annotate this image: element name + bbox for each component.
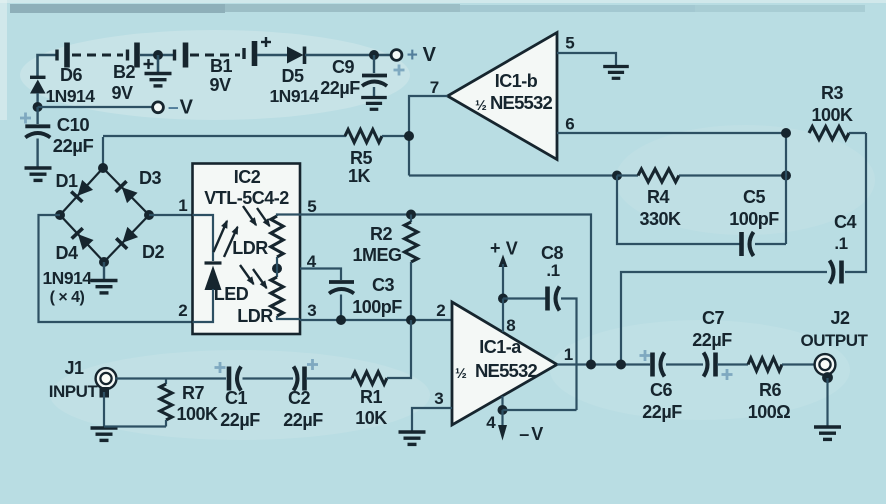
label pin3 a xyxy=(434,389,443,408)
svg-text:10K: 10K xyxy=(355,408,387,428)
label R1 value 10K xyxy=(355,408,387,428)
wire B2 to ground node xyxy=(140,54,173,57)
svg-text:22µF: 22µF xyxy=(692,330,732,350)
wire C7 to R6 xyxy=(717,363,748,365)
label pin2 xyxy=(178,301,187,320)
svg-text:NE5532: NE5532 xyxy=(490,92,553,113)
terminal -V circle xyxy=(153,102,164,113)
label -V ic1a xyxy=(519,424,543,444)
plus mark C1 xyxy=(215,362,226,373)
wire IC1b pin5 to ground xyxy=(557,53,616,65)
svg-text:VTL-5C4-2: VTL-5C4-2 xyxy=(204,188,289,208)
node pin6 R3 junction xyxy=(781,128,791,138)
arrow LED emission 2 xyxy=(224,224,241,257)
wire R5 line left xyxy=(103,135,346,137)
svg-text:22µF: 22µF xyxy=(642,402,682,422)
resistor R6 xyxy=(748,358,782,371)
svg-text:100Ω: 100Ω xyxy=(748,402,791,422)
svg-text:V: V xyxy=(531,424,543,444)
ground IC1b pin5 xyxy=(603,67,629,79)
node pin7 R5 junction xyxy=(404,131,414,141)
svg-text:22µF: 22µF xyxy=(283,410,323,430)
label -V xyxy=(168,97,194,119)
wire bridge bottom stub xyxy=(103,262,105,279)
label J2 xyxy=(830,308,850,328)
label R3 xyxy=(821,83,843,103)
label C8 value .1 xyxy=(546,261,559,280)
LDR bottom resistor xyxy=(271,277,283,316)
svg-text:B2: B2 xyxy=(113,62,135,82)
label pin8 xyxy=(506,316,515,335)
label C5 value 100pF xyxy=(729,209,779,229)
node R4 left xyxy=(612,171,622,181)
ground bridge xyxy=(91,281,118,293)
label C2 value xyxy=(283,410,323,430)
resistor R2 xyxy=(405,215,418,321)
svg-text:8: 8 xyxy=(506,316,515,335)
label J1 xyxy=(64,358,84,378)
arrow LED emission 1 xyxy=(214,218,231,252)
ground IC1a pin3 xyxy=(399,432,426,444)
wire C2 to R1 xyxy=(306,377,352,379)
plus mark C6 xyxy=(640,350,651,361)
svg-text:1K: 1K xyxy=(348,166,371,186)
ground C10 xyxy=(25,168,52,180)
label R5 value 1K xyxy=(348,166,371,186)
diode D6 xyxy=(30,77,46,107)
label C7 xyxy=(702,308,724,328)
svg-text:V: V xyxy=(506,239,518,259)
node R2 top xyxy=(406,210,416,220)
label pin1 xyxy=(178,196,187,215)
plus mark C7 xyxy=(722,369,733,380)
arrow onto LDR bottom 2 xyxy=(253,269,270,291)
svg-text:½: ½ xyxy=(455,365,467,381)
wire +V arrow xyxy=(499,255,508,299)
diode D2 xyxy=(116,227,138,249)
arrow onto LDR bottom 1 xyxy=(240,265,257,287)
label LDR bottom xyxy=(237,306,273,326)
node J2 sleeve xyxy=(822,372,833,383)
label pin5 xyxy=(307,197,316,216)
svg-text:D6: D6 xyxy=(60,65,82,85)
label NE5532 b xyxy=(490,92,553,113)
capacitor C7 xyxy=(704,353,716,377)
svg-text:2: 2 xyxy=(436,301,445,320)
wire IC2 pin3 internal xyxy=(277,316,300,319)
label C3 xyxy=(372,275,394,295)
label pin6 b xyxy=(565,115,574,134)
label C10 xyxy=(57,114,90,135)
label R1 xyxy=(360,387,382,407)
svg-text:100K: 100K xyxy=(176,404,218,424)
label bridge x4 xyxy=(50,289,85,306)
label LDR top xyxy=(232,238,268,258)
capacitor C9 xyxy=(362,55,387,96)
capacitor C6 xyxy=(653,353,665,377)
label C1 xyxy=(225,388,247,408)
label C4 xyxy=(834,212,856,232)
resistor R4 xyxy=(617,169,786,182)
op-amp IC1-a xyxy=(452,302,557,425)
label INPUT xyxy=(49,382,99,401)
wire J2 to ground xyxy=(826,378,828,426)
label R6 value 100ohm xyxy=(748,402,791,422)
wire pin7 node to R4 xyxy=(409,174,617,176)
resistor R3 xyxy=(809,127,866,140)
svg-text:22µF: 22µF xyxy=(220,410,260,430)
LED IC2 xyxy=(205,263,222,290)
plus mark C2 xyxy=(307,359,318,370)
wire LDR junction xyxy=(276,257,278,277)
svg-text:R1: R1 xyxy=(360,387,382,407)
svg-text:J1: J1 xyxy=(64,358,84,378)
label B1 xyxy=(210,56,232,76)
svg-text:–: – xyxy=(519,424,529,444)
plus mark B1 xyxy=(261,37,271,47)
node pin8 junction xyxy=(498,294,508,304)
ground C9 xyxy=(361,98,387,110)
svg-text:D3: D3 xyxy=(139,168,161,188)
node -V junction xyxy=(33,102,43,112)
wire bridge top stub xyxy=(102,137,104,168)
node bridge right xyxy=(144,210,154,220)
terminal +V circle xyxy=(391,50,402,61)
svg-text:C1: C1 xyxy=(225,388,247,408)
node C9 top xyxy=(369,50,379,60)
label C3 value 100pF xyxy=(352,297,402,317)
svg-text:1N914: 1N914 xyxy=(42,268,92,288)
wire IC1b pin7 to R5/R4 node xyxy=(409,96,448,176)
label B2 xyxy=(113,62,135,82)
label IC1-b xyxy=(495,71,538,91)
label C9 xyxy=(332,57,354,77)
capacitor C10 xyxy=(25,107,50,167)
wire IC2 pin1 internal xyxy=(193,215,214,261)
svg-text:IC1-b: IC1-b xyxy=(495,71,538,91)
diode D5 xyxy=(287,47,305,65)
svg-text:9V: 9V xyxy=(209,75,231,95)
wire bridge left to bottom rail xyxy=(39,215,193,322)
label D2 xyxy=(142,242,164,262)
svg-text:LDR: LDR xyxy=(232,238,268,258)
svg-text:1N914: 1N914 xyxy=(45,86,95,106)
arrow onto LDR top 2 xyxy=(257,208,273,229)
label D4 xyxy=(55,243,77,263)
label C1 value xyxy=(220,410,260,430)
svg-text:D5: D5 xyxy=(281,66,303,86)
node R2 bottom xyxy=(406,315,416,325)
svg-text:5: 5 xyxy=(565,34,574,53)
LDR top resistor xyxy=(271,216,283,257)
wire IC1a output xyxy=(557,363,650,365)
label R4 value 330K xyxy=(639,209,681,229)
svg-text:4: 4 xyxy=(486,413,496,432)
plus mark C9 xyxy=(394,65,405,76)
label +V ic1a xyxy=(490,238,518,259)
svg-text:R2: R2 xyxy=(370,224,392,244)
label R5 xyxy=(350,148,372,168)
wire C5 branch xyxy=(617,176,740,245)
wire C4 to output node xyxy=(621,272,827,360)
wire bridge edge TL xyxy=(60,168,103,215)
svg-text:R4: R4 xyxy=(647,187,669,207)
wire top-left corner to battery chain xyxy=(38,55,56,76)
svg-text:V: V xyxy=(180,97,194,119)
label IC2 type VTL-5C4-2 xyxy=(204,188,289,208)
svg-text:1: 1 xyxy=(564,345,573,364)
node output C4 branch xyxy=(616,360,626,370)
battery B1 cell a xyxy=(175,43,186,68)
label pin3 xyxy=(307,301,316,320)
wire R1 up to pin2 node xyxy=(387,320,411,378)
resistor R7 xyxy=(104,379,172,427)
label R4 xyxy=(647,187,669,207)
label R3 value 100K xyxy=(811,105,853,125)
label C2 xyxy=(288,388,310,408)
battery B2 cell a xyxy=(57,43,67,68)
label pin1 a xyxy=(564,345,573,364)
label R7 value 100K xyxy=(176,404,218,424)
svg-text:½: ½ xyxy=(475,97,487,113)
wire pin3 line to IC1a pin2 xyxy=(300,319,452,321)
label D5 value 1N914 xyxy=(269,86,319,106)
svg-text:B1: B1 xyxy=(210,56,232,76)
plus mark C10 xyxy=(20,113,31,124)
svg-text:R6: R6 xyxy=(759,380,781,400)
resistor R5 xyxy=(345,130,382,143)
wire IC1b pin6 line xyxy=(557,132,786,134)
svg-text:3: 3 xyxy=(307,301,316,320)
label D6 xyxy=(60,65,82,85)
wire D5 to +V xyxy=(305,54,391,57)
label C5 xyxy=(743,187,765,207)
label R7 xyxy=(182,383,204,403)
svg-text:.1: .1 xyxy=(834,234,847,253)
wire dashed B1 internal xyxy=(190,54,240,57)
node pin4 junction xyxy=(498,405,508,415)
svg-text:5: 5 xyxy=(307,197,316,216)
wire pin8 stub xyxy=(502,299,504,333)
label C8 xyxy=(541,243,563,263)
wire B1 to D5 xyxy=(257,54,288,57)
label half b xyxy=(475,97,487,113)
label LED xyxy=(214,284,249,304)
label R2 xyxy=(370,224,392,244)
svg-text:C9: C9 xyxy=(332,57,354,77)
wire IC2 pin4 to C3 xyxy=(300,269,341,281)
diode D1 xyxy=(71,180,93,202)
wire IC1a pin3 to ground xyxy=(412,408,452,431)
wire dashed B2 internal xyxy=(72,54,123,57)
label C6 xyxy=(650,380,672,400)
wire IC2 pin5 rail xyxy=(277,215,591,361)
battery B1 cell b xyxy=(244,41,255,66)
svg-text:1N914: 1N914 xyxy=(269,86,319,106)
svg-text:100pF: 100pF xyxy=(729,209,779,229)
wire J1 sleeve to ground xyxy=(103,392,105,427)
label D3 xyxy=(139,168,161,188)
svg-text:D4: D4 xyxy=(55,243,77,263)
label pin7 xyxy=(430,78,439,97)
svg-text:( × 4): ( × 4) xyxy=(50,289,85,306)
wire R5 to pin7 node xyxy=(382,135,409,137)
ground battery midpoint xyxy=(145,74,172,86)
svg-text:C4: C4 xyxy=(834,212,856,232)
IC2 box outline xyxy=(193,164,301,335)
svg-text:100pF: 100pF xyxy=(352,297,402,317)
node bridge bottom xyxy=(99,257,109,267)
wire -V line xyxy=(38,106,153,108)
svg-text:1MEG: 1MEG xyxy=(352,245,401,265)
svg-text:C3: C3 xyxy=(372,275,394,295)
diode D4 xyxy=(72,228,94,250)
plus mark B2 xyxy=(144,59,154,69)
svg-text:INPUT: INPUT xyxy=(49,382,99,401)
arrow onto LDR top 1 xyxy=(243,206,260,228)
label R6 xyxy=(759,380,781,400)
svg-text:6: 6 xyxy=(565,115,574,134)
ground J1 xyxy=(91,428,118,440)
capacitor C4 xyxy=(830,261,842,284)
label IC1-a xyxy=(479,337,522,357)
svg-text:NE5532: NE5532 xyxy=(475,360,538,381)
svg-text:7: 7 xyxy=(430,78,439,97)
node J1 sleeve xyxy=(100,387,110,398)
label B2 value 9V xyxy=(111,83,133,103)
svg-text:C5: C5 xyxy=(743,187,765,207)
svg-text:C6: C6 xyxy=(650,380,672,400)
wire C8 right down to pin4 line xyxy=(561,299,577,411)
svg-text:R3: R3 xyxy=(821,83,843,103)
resistor R1 xyxy=(352,372,387,384)
svg-text:–: – xyxy=(168,98,178,119)
svg-text:22µF: 22µF xyxy=(53,135,94,156)
svg-text:+: + xyxy=(490,238,500,258)
connector J2 xyxy=(815,354,836,375)
node output C8rail xyxy=(586,360,596,370)
label D5 xyxy=(281,66,303,86)
label NE5532 a xyxy=(475,360,538,381)
wire -V arrow xyxy=(498,410,507,441)
node bridge left xyxy=(55,210,65,220)
label OUTPUT xyxy=(801,331,869,350)
label pin4 a xyxy=(486,413,496,432)
svg-text:OUTPUT: OUTPUT xyxy=(801,331,869,350)
wire bridge right to IC2 pin1 xyxy=(149,214,193,216)
label C4 value .1 xyxy=(834,234,847,253)
wire bridge edge BL xyxy=(60,215,104,262)
svg-text:LDR: LDR xyxy=(237,306,273,326)
wire ground stub battery xyxy=(157,55,160,72)
label IC2 xyxy=(234,167,261,187)
node C3 bottom xyxy=(336,315,346,325)
svg-text:D1: D1 xyxy=(55,171,77,191)
label C6 value xyxy=(642,402,682,422)
svg-text:IC1-a: IC1-a xyxy=(479,337,522,357)
svg-text:.1: .1 xyxy=(546,261,559,280)
label R2 value 1MEG xyxy=(352,245,401,265)
label D1 xyxy=(55,171,77,191)
wire bridge edge TR xyxy=(103,168,149,215)
wire bridge edge BR xyxy=(104,215,149,262)
label pin2 a xyxy=(436,301,445,320)
svg-text:C10: C10 xyxy=(57,114,90,135)
svg-text:1: 1 xyxy=(178,196,187,215)
svg-text:LED: LED xyxy=(214,284,249,304)
wire J1 to C1 xyxy=(115,377,226,379)
svg-text:330K: 330K xyxy=(639,209,681,229)
svg-text:C8: C8 xyxy=(541,243,563,263)
label C9 value xyxy=(320,78,360,98)
wire pin4 stub xyxy=(501,396,503,410)
wire pin8 to C8 xyxy=(503,297,546,299)
svg-text:22µF: 22µF xyxy=(320,78,360,98)
svg-text:+: + xyxy=(407,45,418,66)
diode D3 xyxy=(116,181,138,203)
svg-text:C2: C2 xyxy=(288,388,310,408)
wire IC2 pin2 internal xyxy=(193,289,214,322)
ground J2 xyxy=(814,427,841,439)
svg-text:J2: J2 xyxy=(830,308,850,328)
capacitor C2 xyxy=(294,367,305,391)
svg-text:IC2: IC2 xyxy=(234,167,261,187)
svg-text:100K: 100K xyxy=(811,105,853,125)
node IC2 pin4 junction xyxy=(272,264,282,274)
svg-text:R7: R7 xyxy=(182,383,204,403)
svg-text:9V: 9V xyxy=(111,83,133,103)
svg-text:2: 2 xyxy=(178,301,187,320)
connector J1 xyxy=(96,368,117,389)
node R4 right xyxy=(781,171,791,181)
label +V xyxy=(407,44,437,66)
label pin5 b xyxy=(565,34,574,53)
battery B2 cell b xyxy=(128,43,138,68)
node battery midpoint xyxy=(153,50,163,60)
label pin4 xyxy=(307,252,317,271)
label C7 value xyxy=(692,330,732,350)
label B1 value 9V xyxy=(209,75,231,95)
node bridge top xyxy=(98,163,108,173)
wire R4 right vertical xyxy=(785,133,787,244)
label D6 value 1N914 xyxy=(45,86,95,106)
label bridge 1N914 xyxy=(42,268,92,288)
svg-text:C7: C7 xyxy=(702,308,724,328)
svg-text:R5: R5 xyxy=(350,148,372,168)
svg-text:D2: D2 xyxy=(142,242,164,262)
capacitor C5 xyxy=(742,232,787,256)
svg-text:3: 3 xyxy=(434,389,443,408)
wire R3 corner down to C4 xyxy=(845,133,866,272)
wire R6 to J2 xyxy=(782,363,816,365)
label half a xyxy=(455,365,467,381)
capacitor C8 xyxy=(548,287,560,311)
wire C6 to C7 xyxy=(666,363,703,365)
capacitor C1 xyxy=(229,367,241,391)
wire pin4 line to C8 branch xyxy=(503,409,577,411)
wire C1 to C2 xyxy=(243,377,294,379)
svg-text:V: V xyxy=(423,44,437,66)
capacitor C3 xyxy=(329,282,354,320)
label C10 value xyxy=(53,135,94,156)
op-amp IC1-b xyxy=(448,33,558,160)
